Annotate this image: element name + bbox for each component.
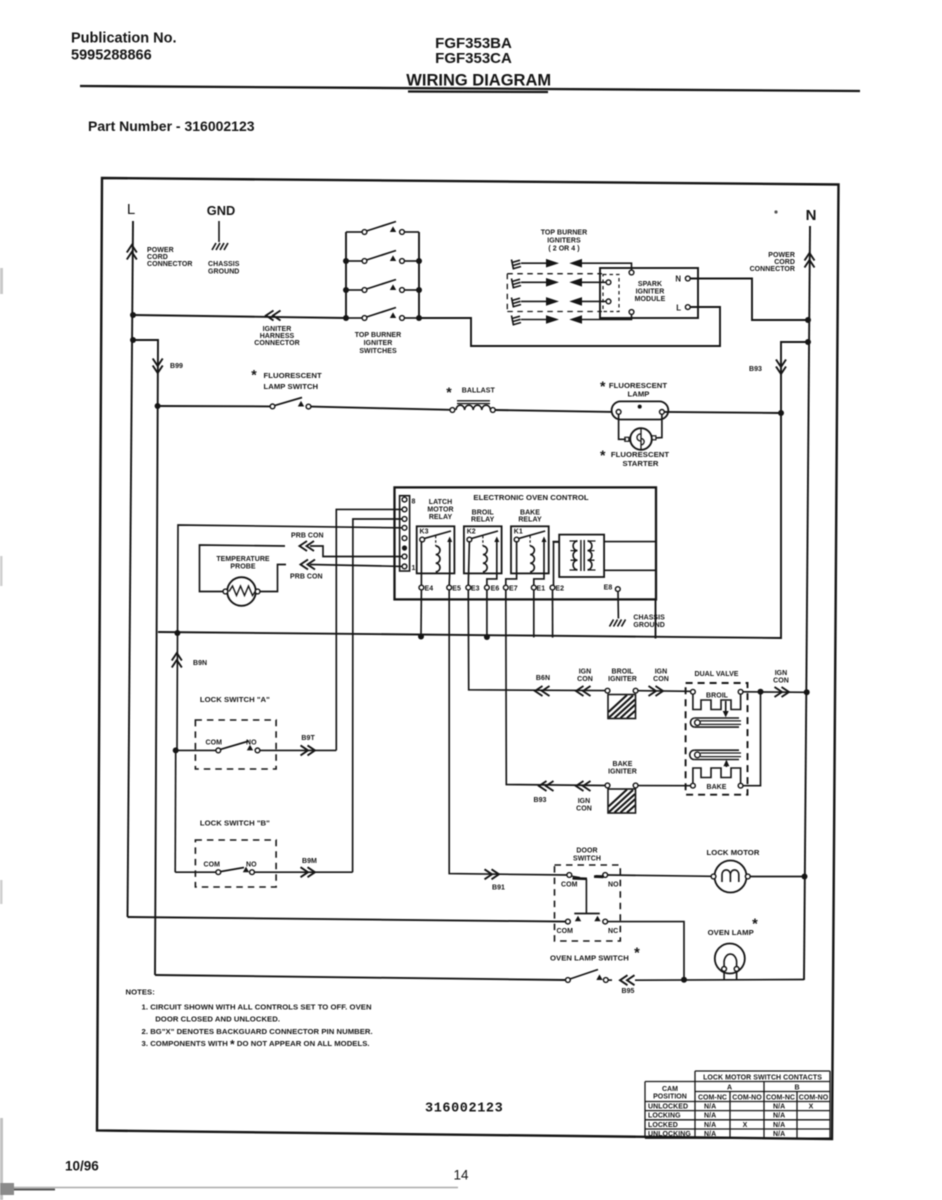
svg-text:RELAY: RELAY [471,517,495,524]
svg-text:BROIL: BROIL [706,693,729,700]
svg-text:B9N: B9N [193,660,207,667]
svg-text:E1: E1 [537,586,546,593]
switch row 2 [343,251,422,265]
svg-text:CONNECTOR: CONNECTOR [147,261,192,268]
wire E1 to bus [533,590,535,638]
svg-text:CON: CON [576,806,592,813]
relay K1 bake relay [511,526,549,573]
svg-text:K3: K3 [420,529,429,536]
svg-text:N/A: N/A [704,1131,716,1138]
svg-text:LOCK SWITCH "A": LOCK SWITCH "A" [200,695,270,704]
svg-text:DOOR CLOSED AND UNLOCKED.: DOOR CLOSED AND UNLOCKED. [155,1015,280,1024]
svg-text:Part Number - 316002123: Part Number - 316002123 [88,118,255,134]
svg-text:BAKE: BAKE [612,761,632,768]
svg-text:WIRING DIAGRAM: WIRING DIAGRAM [406,72,551,90]
svg-text:IGNITER: IGNITER [636,289,665,296]
svg-text:TEMPERATURE: TEMPERATURE [216,556,270,563]
svg-text:CON: CON [773,678,789,685]
wire valve right side [743,692,807,786]
svg-text:COM-NC: COM-NC [766,1094,795,1101]
svg-text:*: * [446,384,452,400]
svg-text:POSITION: POSITION [653,1094,687,1101]
electrode+gap row 2 [512,278,607,289]
svg-text:MOTOR: MOTOR [427,507,453,514]
switch row 4 [343,308,422,322]
svg-text:FGF353CA: FGF353CA [435,50,512,67]
wire gnd stub [218,221,220,242]
svg-text:X: X [743,1122,748,1129]
connector IGN CON [576,686,591,696]
power cord connector (L) [127,245,137,260]
bake valve tube [694,750,739,759]
svg-text:PRB CON: PRB CON [290,574,323,581]
svg-text:LOCKED: LOCKED [648,1122,678,1129]
wire N from module [690,279,808,321]
svg-text:K2: K2 [467,529,476,536]
svg-text:SWITCHES: SWITCHES [359,348,397,355]
svg-text:1. CIRCUIT SHOWN WITH ALL CONT: 1. CIRCUIT SHOWN WITH ALL CONTROLS SET T… [142,1003,372,1012]
svg-text:N/A: N/A [773,1104,785,1111]
svg-text:*: * [600,447,606,463]
svg-text:COM-NC: COM-NC [698,1094,727,1101]
wire pin5 long to left [177,525,403,750]
svg-text:COM-NO: COM-NO [799,1094,829,1101]
svg-text:5995288866: 5995288866 [71,48,152,64]
svg-text:NC: NC [608,928,618,935]
svg-text:LAMP SWITCH: LAMP SWITCH [264,382,319,391]
svg-text:HARNESS: HARNESS [260,333,295,340]
wire N rail [804,226,810,980]
svg-text:DOOR: DOOR [576,848,597,855]
electrode+gap row 4 [512,314,632,326]
svg-text:E7: E7 [509,586,518,593]
svg-text:GROUND: GROUND [208,269,239,276]
svg-text:B93: B93 [534,797,547,804]
svg-text:IGNITERS: IGNITERS [547,238,581,245]
broil solenoid [691,689,696,694]
chassis ground (top) [212,243,228,250]
E terminals row [419,541,620,593]
svg-text:B: B [794,1085,799,1092]
wire lock motor to N rail [750,876,805,878]
svg-text:BALLAST: BALLAST [462,388,496,395]
wire door NO to lock motor [608,875,713,876]
svg-text:E2: E2 [555,586,564,593]
svg-text:COM: COM [557,928,574,935]
wire door NC down [608,922,685,980]
svg-text:IGN: IGN [579,669,592,676]
switch row 1 [346,222,419,235]
wire oven lamp bottom [635,979,804,982]
wire to spark module [419,307,720,346]
electrode+gap row 1 [512,259,632,270]
svg-text:N: N [806,207,817,224]
svg-text:L: L [676,304,681,313]
fluorescent lamp [612,401,669,419]
wire L rail [128,221,134,917]
svg-text:RELAY: RELAY [429,514,453,521]
wire branch from L [133,340,158,975]
relay K2 broil relay [464,526,502,573]
svg-text:TOP BURNER: TOP BURNER [541,230,588,237]
svg-text:*: * [634,946,640,962]
svg-text:8: 8 [412,499,416,506]
svg-text:IGNITER: IGNITER [263,326,292,333]
svg-text:CORD: CORD [147,254,168,261]
svg-text:10/96: 10/96 [65,1159,99,1174]
connector B93 [776,360,786,375]
igniter harness connector [266,311,281,321]
wire EOC corner to bus [655,599,657,638]
svg-text:POWER: POWER [768,252,795,259]
connector IGN CON to N rail [775,687,790,697]
svg-text:UNLOCKED: UNLOCKED [648,1104,688,1111]
wire N branch to bus [158,342,808,638]
svg-text:PRB CON: PRB CON [291,533,324,540]
switch row 3 [343,280,422,294]
transformer T1 [559,535,656,577]
svg-text:N/A: N/A [704,1104,716,1111]
wire main bus [133,315,346,318]
wire E6 to bus [486,590,488,637]
svg-text:N: N [675,275,681,284]
svg-text:L: L [127,201,135,218]
wire lamp to N branch [664,412,781,413]
svg-text:14: 14 [454,1168,470,1183]
svg-text:GROUND: GROUND [633,622,664,629]
wire E7 to bake igniter line [506,590,605,786]
wire right rail [418,232,420,318]
svg-text:2. BG"X" DENOTES BACKGUARD CON: 2. BG"X" DENOTES BACKGUARD CONNECTOR PIN… [142,1027,373,1036]
svg-text:LOCK MOTOR SWITCH CONTACTS: LOCK MOTOR SWITCH CONTACTS [703,1075,822,1082]
wire ballast to lamp [495,410,612,412]
svg-text:N/A: N/A [773,1131,785,1138]
svg-text:BROIL: BROIL [611,669,634,676]
svg-text:LAMP: LAMP [628,390,650,399]
wire fluorescent line [158,405,271,407]
connector IGN CON out [649,686,664,696]
svg-text:OVEN LAMP SWITCH: OVEN LAMP SWITCH [550,954,629,963]
dashed igniter harness outline [507,274,602,312]
svg-text:IGNITER: IGNITER [608,676,637,683]
node junction [130,312,136,318]
svg-text:LOCKING: LOCKING [648,1113,681,1120]
fluorescent starter [619,414,662,450]
svg-text:E5: E5 [452,586,461,593]
power cord connector (N) [805,253,815,268]
svg-text:GND: GND [207,203,235,218]
svg-text:B93: B93 [749,366,762,373]
wire E4 to bus [420,590,422,637]
svg-text:CORD: CORD [774,259,795,266]
svg-text:LOCK SWITCH "B": LOCK SWITCH "B" [200,819,270,828]
svg-text:B9M: B9M [302,858,317,865]
svg-text:N/A: N/A [773,1113,785,1120]
svg-text:COM: COM [206,740,223,747]
svg-text:CHASSIS: CHASSIS [633,615,665,622]
svg-text:NO: NO [246,862,257,869]
wire pin7 to lock switch A [336,509,402,750]
svg-text:1: 1 [412,565,416,572]
svg-text:IGN: IGN [775,670,788,677]
svg-text:N/A: N/A [704,1113,716,1120]
E8 chassis ground [617,591,619,618]
svg-text:DUAL VALVE: DUAL VALVE [694,671,738,678]
svg-text:B6N: B6N [536,675,550,682]
svg-text:E3: E3 [471,586,480,593]
svg-text:MODULE: MODULE [635,296,666,303]
svg-text:E6: E6 [491,586,500,593]
svg-text:FLUORESCENT: FLUORESCENT [264,371,322,380]
igniter spark gaps (4 rows) [507,259,631,326]
svg-text:COM: COM [204,862,221,869]
electrode+gap row 3 [512,297,607,307]
svg-text:UNLOCKING: UNLOCKING [648,1131,691,1138]
svg-text:BROIL: BROIL [472,510,495,517]
svg-text:LOCK MOTOR: LOCK MOTOR [707,848,760,857]
svg-text:CAM: CAM [662,1086,678,1093]
svg-text:A: A [727,1085,732,1092]
svg-text:OVEN LAMP: OVEN LAMP [708,928,754,937]
svg-text:IGNITER: IGNITER [608,769,637,776]
ballast [450,401,495,413]
svg-text:POWER: POWER [147,247,174,254]
fluorescent lamp switch [270,398,311,410]
svg-text:BAKE: BAKE [706,784,726,791]
svg-text:B95: B95 [622,988,635,995]
svg-text:TOP BURNER: TOP BURNER [355,332,402,339]
wire E5 to door switch com [449,590,567,875]
svg-text:B91: B91 [492,885,505,892]
svg-text:316002123: 316002123 [425,1102,503,1117]
svg-text:CON: CON [577,676,593,683]
svg-text:IGN: IGN [655,669,668,676]
svg-text:N/A: N/A [773,1122,785,1129]
svg-text:FLUORESCENT: FLUORESCENT [611,450,669,459]
svg-text:K1: K1 [514,529,523,536]
svg-text:NO: NO [608,882,619,889]
wire pin2 to probe [310,546,403,557]
scan artifacts [774,210,777,213]
connector BGN [535,686,550,696]
svg-text:SPARK: SPARK [638,281,662,288]
svg-text:*: * [600,378,606,394]
svg-text:CONNECTOR: CONNECTOR [750,266,795,273]
svg-text:N/A: N/A [704,1122,716,1129]
connector strip P1 [400,496,416,572]
svg-text:B9T: B9T [301,735,315,742]
svg-text:CON: CON [653,676,669,683]
relay K3 latch motor relay [417,526,455,573]
svg-text:PROBE: PROBE [230,564,255,571]
wire E3 to broil igniter line [468,590,605,691]
wire to ballast [311,407,450,410]
connector B99 [153,359,163,374]
svg-text:COM-NO: COM-NO [732,1094,762,1101]
svg-text:( 2 OR 4 ): ( 2 OR 4 ) [548,246,579,253]
svg-text:RELAY: RELAY [518,517,542,524]
wire E2 to bus [552,590,554,638]
svg-text:IGN: IGN [578,798,591,805]
svg-text:E8: E8 [604,585,613,592]
svg-text:BAKE: BAKE [520,510,540,517]
broil valve tube [694,718,739,727]
wire pin6 to lock switch B [353,519,403,872]
svg-text:IGNITER: IGNITER [364,340,393,347]
svg-text:X: X [809,1104,814,1111]
wire door com feed [128,917,566,922]
connector B9N [172,653,182,668]
svg-text:CHASSIS: CHASSIS [208,261,240,268]
svg-text:*: * [251,367,257,383]
wire left rail [345,232,347,318]
svg-text:CONNECTOR: CONNECTOR [254,340,299,347]
svg-text:COM: COM [561,882,578,889]
wire pin1 to probe [310,565,403,567]
svg-text:STARTER: STARTER [622,459,658,468]
svg-text:SWITCH: SWITCH [573,856,601,863]
connector IGN CON [576,781,591,791]
svg-text:B99: B99 [170,363,183,370]
svg-text:E4: E4 [425,586,434,593]
connector B93 [539,781,554,791]
svg-text:ELECTRONIC OVEN CONTROL: ELECTRONIC OVEN CONTROL [473,493,588,502]
bake solenoid [725,761,727,767]
svg-text:Publication No.: Publication No. [71,31,177,47]
svg-text:LATCH: LATCH [429,499,452,506]
connector B91 [485,869,500,879]
svg-text:NOTES:: NOTES: [126,988,155,997]
